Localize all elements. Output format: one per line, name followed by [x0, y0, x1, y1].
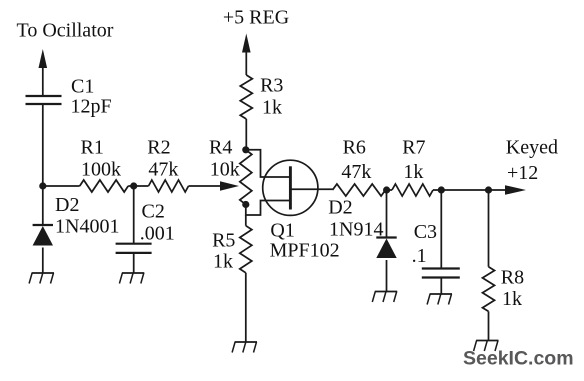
- svg-text:R6: R6: [343, 137, 366, 159]
- svg-text:D2: D2: [328, 197, 352, 219]
- svg-text:100k: 100k: [81, 159, 121, 181]
- svg-text:R4: R4: [209, 137, 232, 159]
- svg-text:R5: R5: [212, 230, 235, 252]
- svg-text:1k: 1k: [262, 97, 282, 119]
- svg-text:1k: 1k: [403, 161, 423, 183]
- svg-text:+12: +12: [507, 162, 538, 184]
- svg-text:SeekIC.com: SeekIC.com: [463, 348, 574, 370]
- svg-text:1N914: 1N914: [329, 219, 383, 241]
- svg-text:+5 REG: +5 REG: [223, 7, 289, 29]
- svg-text:10k: 10k: [210, 159, 240, 181]
- svg-text:Q1: Q1: [270, 220, 294, 242]
- svg-text:C1: C1: [71, 76, 94, 98]
- svg-text:1N4001: 1N4001: [55, 216, 119, 238]
- svg-text:47k: 47k: [148, 159, 178, 181]
- svg-text:C3: C3: [414, 221, 437, 243]
- svg-text:MPF102: MPF102: [270, 240, 340, 262]
- svg-text:C2: C2: [142, 201, 165, 223]
- svg-text:R2: R2: [147, 137, 170, 159]
- svg-text:47k: 47k: [341, 161, 371, 183]
- svg-text:.1: .1: [412, 245, 427, 267]
- svg-text:To Ocillator: To Ocillator: [17, 20, 114, 42]
- svg-text:R3: R3: [260, 75, 283, 97]
- svg-text:D2: D2: [55, 194, 79, 216]
- svg-text:R1: R1: [81, 137, 104, 159]
- svg-text:Keyed: Keyed: [506, 137, 558, 159]
- svg-text:.001: .001: [140, 223, 175, 245]
- svg-text:R8: R8: [501, 267, 524, 289]
- svg-text:12pF: 12pF: [71, 96, 112, 118]
- svg-text:1k: 1k: [502, 288, 522, 310]
- svg-text:1k: 1k: [213, 251, 233, 273]
- svg-text:R7: R7: [402, 137, 425, 159]
